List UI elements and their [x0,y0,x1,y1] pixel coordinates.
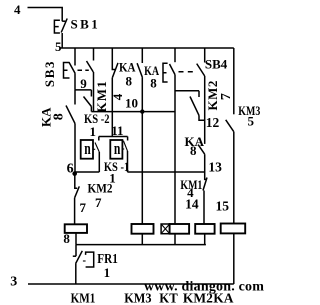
pushbutton SB4 NC contact [170,48,176,224]
svg-text:7: 7 [80,200,87,215]
SB3 actuator bracket [64,63,89,79]
node 11 label [111,123,123,138]
node 3 label [10,274,17,289]
label n (KS-1) [114,139,121,158]
pushbutton SB4 NO contact [197,48,205,144]
label KT (coil name) [159,290,177,305]
svg-text:KT: KT [159,290,177,305]
svg-text:15: 15 [216,199,230,214]
coil KM1 [65,224,87,233]
svg-text:SB1: SB1 [71,17,101,32]
svg-text:KS -1: KS -1 [104,159,129,174]
svg-text:7: 7 [95,195,102,210]
label KM1 (vertical) [94,80,109,112]
watermark [144,280,264,295]
wire coil bottom rail [76,233,206,245]
contact KM1 self-holding (NO) [84,90,92,112]
wire node 6 horizontal [75,171,100,173]
svg-text:1: 1 [104,265,111,280]
node 8 label [190,143,197,158]
label KM2 (coil name) [183,290,213,305]
svg-text:14: 14 [185,197,199,212]
svg-text:7: 7 [219,93,234,100]
coil KT (time relay) [161,224,189,234]
label KA [185,134,205,149]
label KA [119,60,136,75]
label KM2 (vertical) [205,80,220,110]
svg-text:13: 13 [208,160,222,175]
wire node 10 horizontal [91,111,175,113]
svg-text:8: 8 [51,113,66,120]
wire bus node 5 [60,47,234,49]
node 5 label [248,113,255,128]
label 7 (vertical) [219,93,234,100]
svg-text:10: 10 [125,96,138,111]
svg-text:KM1: KM1 [71,290,96,305]
junction dot [140,109,144,113]
svg-text:6: 6 [67,162,74,177]
node 12 label [206,115,220,130]
coil KM2 [195,224,214,234]
svg-text:1: 1 [90,124,97,139]
svg-text:KA: KA [119,60,136,75]
contact KA NO (right) [198,145,205,172]
svg-text:SB4: SB4 [205,57,228,72]
svg-text:n: n [114,139,121,158]
coil KA [221,224,246,234]
wire node 13 horizontal [127,171,204,173]
svg-text:5: 5 [55,39,62,54]
coil KM3 [132,172,154,234]
contact KM1 NC (interlock) [203,172,207,224]
node 10 label [125,96,138,111]
node 8 label [126,74,133,89]
label SB4 [205,57,228,72]
label FR1 [97,252,118,267]
svg-text:KM3: KM3 [124,290,152,305]
svg-text:5: 5 [248,113,255,128]
label 4 (vertical) [110,93,125,100]
node 7 label [80,200,87,215]
node 4 label [14,2,21,17]
label SB3 (vertical) [42,60,57,87]
wire node 9 horizontal [75,89,91,91]
svg-text:SB3: SB3 [42,60,57,87]
contact KA NO (left branch) [66,90,75,172]
node 13 label [208,160,222,175]
wire KS rail [99,136,128,138]
label n (KS-2) [84,139,91,158]
node 9 label [80,76,87,91]
svg-text:12: 12 [206,115,220,130]
node 5 label [55,39,62,54]
contact KA NC [112,48,118,137]
svg-text:4: 4 [14,2,21,17]
svg-text:KS -2: KS -2 [84,111,110,126]
label KA (vertical) [39,107,54,127]
node 6 [72,171,77,176]
speed relay contact KS-1 [110,137,127,173]
node 4 label [187,185,194,200]
label KM1 (coil name) [71,290,96,305]
svg-text:9: 9 [80,76,87,91]
speed relay contact KS-2 [81,137,100,173]
svg-text:8: 8 [190,143,197,158]
node 7 label [95,195,102,210]
label KS-2 [84,111,110,126]
node 1 label [90,124,97,139]
node 8 label [63,231,70,246]
label KS-1 [104,159,129,174]
label 8 (vertical) [51,113,66,120]
contact KM2 NC (interlock left) [75,172,80,224]
svg-text:KM1: KM1 [94,80,109,112]
pushbutton SB1 (NC) [54,19,67,49]
node 14 label [185,197,199,212]
node 15 label [216,199,230,214]
label SB1 [71,17,101,32]
label KM2 [88,181,113,196]
svg-text:8: 8 [63,231,70,246]
svg-text:KM2: KM2 [88,181,113,196]
node 6 label [67,162,74,177]
wire node 12 horizontal [175,90,199,92]
node 1 label [109,170,116,185]
thermal overload FR1 (NC) [73,245,94,284]
svg-text:8: 8 [150,75,157,90]
svg-text:3: 3 [10,274,17,289]
contact KA NO (relay branch) [137,48,142,172]
wire KA coil to line 3 [233,233,235,284]
wire line 4 top [28,8,63,22]
pushbutton SB4 actuator bracket [163,63,193,82]
node 1 label [104,265,111,280]
pushbutton SB3 NO contact [87,48,94,112]
node 8 label [150,75,157,90]
svg-text:11: 11 [111,123,123,138]
svg-text:8: 8 [126,74,133,89]
svg-text:KA: KA [213,290,234,305]
contact KM2 NC [190,91,205,121]
label KA (coil name) [213,290,234,305]
label KA [144,63,159,78]
label KM3 [238,103,260,118]
svg-text:n: n [84,139,91,158]
label KM1 [180,177,202,192]
pushbutton SB3 NC contact [69,48,75,90]
wire line 3 bottom [28,283,234,285]
label KM3 (coil name) [124,290,152,305]
contact KM3 NO (right branch) [226,48,234,224]
svg-text:KM2: KM2 [183,290,213,305]
svg-text:KM2: KM2 [205,80,220,110]
